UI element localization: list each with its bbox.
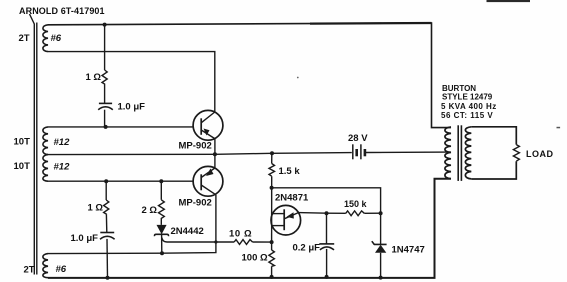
svg-text:2 Ω: 2 Ω	[142, 205, 158, 216]
svg-text:MP-902: MP-902	[179, 198, 212, 209]
svg-text:2T: 2T	[24, 264, 35, 275]
svg-text:STYLE 12479: STYLE 12479	[442, 93, 493, 102]
svg-text:2T: 2T	[19, 33, 30, 44]
svg-text:10 Ω: 10 Ω	[229, 229, 252, 240]
svg-text:10T: 10T	[14, 137, 31, 148]
svg-text:MP-902: MP-902	[179, 140, 212, 151]
svg-text:1.0 μF: 1.0 μF	[71, 233, 99, 244]
svg-text:100 Ω: 100 Ω	[242, 253, 268, 264]
svg-text:2N4442: 2N4442	[171, 226, 204, 237]
svg-text:28 V: 28 V	[348, 133, 368, 144]
svg-text:#6: #6	[56, 264, 67, 275]
svg-text:ARNOLD 6T-417901: ARNOLD 6T-417901	[19, 6, 105, 16]
svg-text:1N4747: 1N4747	[392, 244, 425, 255]
svg-text:1.5 k: 1.5 k	[279, 166, 301, 177]
svg-text:150 k: 150 k	[344, 199, 368, 209]
svg-text:1 Ω: 1 Ω	[86, 72, 102, 83]
svg-text:0.2 μF: 0.2 μF	[293, 243, 321, 254]
svg-text:BURTON: BURTON	[442, 84, 476, 93]
svg-text:5 KVA 400 Hz: 5 KVA 400 Hz	[441, 102, 497, 111]
svg-text:1.0 μF: 1.0 μF	[118, 102, 146, 113]
svg-text:56 CT: 115 V: 56 CT: 115 V	[441, 111, 493, 120]
svg-text:10T: 10T	[14, 161, 31, 172]
svg-text:1 Ω: 1 Ω	[88, 203, 104, 214]
svg-text:#6: #6	[51, 33, 62, 44]
svg-text:#12: #12	[54, 162, 71, 173]
svg-text:#12: #12	[54, 137, 71, 148]
svg-text:LOAD: LOAD	[526, 149, 554, 159]
svg-text:2N4871: 2N4871	[275, 192, 309, 203]
